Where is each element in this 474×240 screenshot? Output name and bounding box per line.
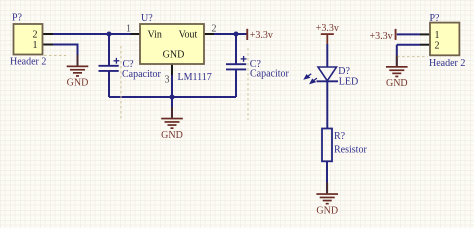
svg-text:Resistor: Resistor [334, 144, 367, 155]
svg-text:1: 1 [126, 24, 131, 35]
svg-text:+3.3v: +3.3v [250, 30, 273, 41]
svg-text:P?: P? [12, 13, 23, 24]
svg-text:3: 3 [165, 75, 170, 86]
svg-text:LM1117: LM1117 [178, 72, 212, 83]
svg-text:+3.3v: +3.3v [369, 31, 392, 42]
svg-text:1: 1 [33, 40, 38, 51]
svg-text:Capacitor: Capacitor [122, 69, 162, 80]
svg-text:Capacitor: Capacitor [250, 69, 290, 80]
svg-text:GND: GND [163, 50, 185, 61]
svg-text:2: 2 [435, 40, 440, 51]
svg-text:+3.3v: +3.3v [316, 23, 339, 34]
svg-text:R?: R? [334, 131, 346, 142]
svg-text:1: 1 [435, 30, 440, 41]
svg-text:D?: D? [338, 66, 350, 77]
svg-text:Header 2: Header 2 [10, 57, 46, 68]
svg-text:2: 2 [33, 30, 38, 41]
svg-text:Header 2: Header 2 [429, 58, 465, 69]
svg-text:Vout: Vout [179, 30, 198, 41]
svg-text:Vin: Vin [148, 30, 162, 41]
svg-text:2: 2 [212, 24, 217, 35]
svg-text:U?: U? [141, 13, 153, 24]
svg-text:LED: LED [339, 77, 358, 88]
